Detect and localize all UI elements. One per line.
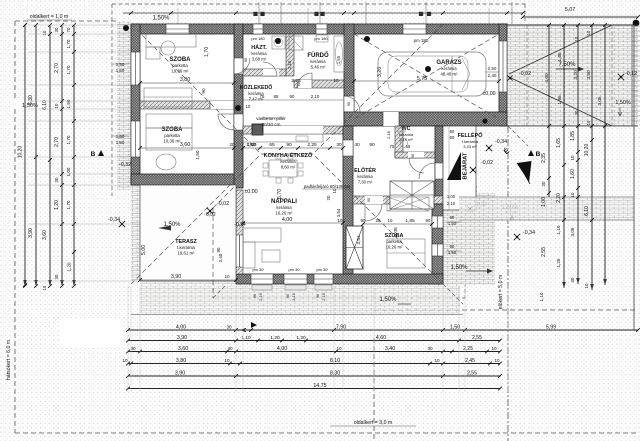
svg-text:5,46 m²: 5,46 m² (311, 65, 326, 70)
svg-text:KONYHA-ÉTKEZŐ: KONYHA-ÉTKEZŐ (264, 151, 313, 159)
svg-text:1,60: 1,60 (570, 169, 576, 179)
svg-text:8,10: 8,10 (330, 358, 340, 364)
svg-text:75: 75 (390, 144, 395, 149)
svg-text:kerámia: kerámia (357, 174, 373, 179)
svg-text:3,90: 3,90 (28, 228, 34, 238)
svg-text:1,50%: 1,50% (152, 16, 170, 22)
svg-text:30: 30 (541, 181, 546, 186)
svg-text:GARÁZS: GARÁZS (436, 59, 461, 66)
svg-text:5,99: 5,99 (546, 325, 556, 331)
svg-text:6,10: 6,10 (42, 100, 48, 110)
svg-text:7,90: 7,90 (336, 325, 346, 331)
svg-text:1,70: 1,70 (204, 47, 210, 57)
svg-text:6,30: 6,30 (28, 95, 34, 105)
svg-text:2,25: 2,25 (291, 78, 301, 84)
svg-text:10: 10 (570, 155, 575, 160)
svg-text:4,00: 4,00 (176, 325, 186, 331)
svg-text:pm 180: pm 180 (414, 38, 429, 43)
svg-text:2,70: 2,70 (54, 63, 60, 73)
svg-text:90: 90 (253, 294, 257, 298)
svg-text:5,00: 5,00 (141, 245, 147, 255)
svg-text:pm 30: pm 30 (316, 267, 328, 272)
svg-text:FELLÉPŐ: FELLÉPŐ (458, 131, 483, 139)
svg-text:1,50: 1,50 (66, 99, 71, 108)
svg-text:6,10: 6,10 (584, 206, 590, 216)
svg-text:90: 90 (426, 218, 431, 223)
svg-text:2,25: 2,25 (463, 346, 473, 352)
svg-text:7,30 m²: 7,30 m² (358, 180, 373, 185)
svg-text:3,51: 3,51 (356, 235, 362, 245)
svg-text:2,10: 2,10 (311, 94, 320, 99)
svg-text:1,25: 1,25 (556, 258, 561, 267)
svg-text:10: 10 (586, 30, 591, 35)
svg-text:19,36 m²: 19,36 m² (172, 69, 190, 74)
svg-text:kerámia: kerámia (441, 66, 457, 71)
svg-text:90: 90 (411, 154, 415, 158)
svg-text:1,50: 1,50 (116, 62, 125, 67)
svg-text:20: 20 (230, 142, 235, 147)
svg-text:1,50%: 1,50% (379, 297, 397, 303)
svg-text:kerámia: kerámia (310, 59, 326, 64)
svg-text:-0,34: -0,34 (523, 230, 535, 236)
svg-text:KÖZLEKEDŐ: KÖZLEKEDŐ (240, 84, 273, 91)
svg-text:4,60: 4,60 (376, 335, 386, 341)
svg-text:-0,34: -0,34 (234, 222, 246, 228)
svg-text:1,00: 1,00 (447, 194, 456, 199)
svg-text:90: 90 (216, 247, 221, 252)
svg-text:3,54: 3,54 (336, 208, 341, 217)
svg-text:65: 65 (269, 142, 275, 148)
svg-text:10: 10 (570, 192, 575, 197)
svg-text:-0,34: -0,34 (495, 139, 507, 145)
svg-text:1,85: 1,85 (557, 52, 563, 62)
svg-text:oldalkert = 1,0 m: oldalkert = 1,0 m (30, 14, 69, 20)
svg-text:-0,32: -0,32 (119, 162, 131, 168)
svg-text:30: 30 (54, 274, 59, 279)
svg-text:2,10: 2,10 (287, 60, 292, 69)
svg-text:3,80: 3,80 (176, 358, 186, 364)
svg-text:60: 60 (450, 215, 455, 220)
svg-text:1,50: 1,50 (116, 134, 125, 139)
svg-text:10: 10 (494, 358, 500, 363)
svg-text:7,50%: 7,50% (558, 62, 576, 68)
svg-text:1,50%: 1,50% (615, 100, 630, 106)
svg-text:1,65: 1,65 (556, 138, 562, 148)
svg-text:30: 30 (130, 346, 136, 351)
svg-text:90: 90 (347, 102, 351, 106)
svg-text:1,50%: 1,50% (450, 265, 468, 271)
svg-text:90: 90 (450, 244, 455, 249)
svg-text:30: 30 (427, 346, 433, 351)
svg-text:oldalkert = 3,0 m: oldalkert = 3,0 m (354, 420, 393, 426)
svg-text:6,70: 6,70 (277, 189, 283, 199)
svg-text:2,40: 2,40 (488, 73, 497, 78)
svg-text:1,50: 1,50 (448, 250, 457, 255)
svg-text:10: 10 (584, 283, 589, 288)
svg-text:2,45: 2,45 (465, 358, 475, 364)
svg-text:14,75: 14,75 (313, 383, 326, 389)
svg-text:1,10: 1,10 (556, 225, 561, 234)
svg-text:parketta: parketta (172, 63, 188, 68)
svg-text:t.kerámia: t.kerámia (177, 245, 195, 250)
svg-text:3,60: 3,60 (180, 142, 190, 148)
svg-text:1,00: 1,00 (246, 142, 256, 148)
svg-text:10: 10 (434, 358, 440, 363)
svg-text:85: 85 (274, 94, 279, 99)
svg-text:-0,34: -0,34 (108, 217, 120, 223)
svg-text:ELŐTÉR: ELŐTÉR (354, 166, 376, 174)
svg-text:1,20: 1,20 (296, 335, 306, 341)
svg-text:2,35: 2,35 (541, 153, 547, 163)
svg-text:±0,00: ±0,00 (244, 189, 257, 195)
svg-text:2,55: 2,55 (467, 371, 477, 377)
svg-text:3,60: 3,60 (178, 346, 188, 352)
svg-text:90: 90 (286, 142, 292, 148)
svg-text:30: 30 (226, 325, 232, 330)
svg-text:2,19: 2,19 (322, 293, 326, 300)
svg-text:1,10: 1,10 (241, 335, 251, 341)
svg-text:pm 30: pm 30 (288, 267, 300, 272)
svg-text:30: 30 (336, 142, 342, 148)
svg-text:kerámia: kerámia (251, 51, 267, 56)
svg-text:3,80: 3,80 (180, 77, 190, 83)
svg-text:10,36 m²: 10,36 m² (164, 139, 182, 144)
svg-text:1,50: 1,50 (116, 68, 125, 73)
svg-text:5,75: 5,75 (417, 76, 427, 82)
svg-text:vasbeton pillér: vasbeton pillér (256, 116, 286, 121)
svg-text:1,95: 1,95 (557, 95, 563, 105)
svg-text:5,07: 5,07 (565, 7, 575, 13)
svg-text:1,70: 1,70 (66, 39, 71, 48)
svg-text:75: 75 (260, 94, 265, 99)
svg-text:BEJÁRAT: BEJÁRAT (462, 152, 469, 179)
svg-text:1,85: 1,85 (570, 131, 576, 141)
svg-text:1,00: 1,00 (541, 197, 547, 207)
svg-text:30: 30 (227, 346, 233, 351)
svg-text:1,50: 1,50 (448, 221, 457, 226)
svg-text:2,50: 2,50 (488, 66, 497, 71)
svg-text:10: 10 (246, 104, 251, 109)
svg-text:70: 70 (66, 27, 71, 32)
svg-text:2,70: 2,70 (54, 137, 60, 147)
svg-text:2,25: 2,25 (307, 142, 317, 148)
svg-text:40: 40 (354, 142, 360, 148)
svg-text:30: 30 (54, 177, 59, 182)
svg-text:-0,02: -0,02 (217, 201, 229, 207)
svg-text:2,55: 2,55 (472, 335, 482, 341)
svg-text:3,33 m²: 3,33 m² (463, 144, 477, 149)
svg-text:60: 60 (450, 135, 455, 140)
svg-text:1,70: 1,70 (66, 65, 71, 74)
svg-text:48,40 m²: 48,40 m² (441, 72, 459, 77)
svg-text:8,60 m²: 8,60 m² (281, 165, 296, 170)
svg-text:3,68 m²: 3,68 m² (252, 57, 267, 62)
svg-text:1,70: 1,70 (66, 200, 71, 209)
svg-text:pm 180: pm 180 (251, 36, 265, 41)
svg-text:10: 10 (54, 103, 59, 108)
svg-text:10: 10 (388, 218, 393, 223)
svg-text:3,40: 3,40 (385, 346, 395, 352)
svg-text:2,19: 2,19 (259, 293, 263, 300)
svg-text:10,20: 10,20 (584, 144, 590, 157)
svg-text:25: 25 (375, 218, 381, 223)
svg-text:2,20: 2,20 (556, 193, 562, 203)
svg-text:90: 90 (367, 198, 371, 202)
svg-text:30: 30 (570, 277, 575, 282)
svg-text:kerámia: kerámia (276, 205, 292, 210)
svg-text:3,90: 3,90 (177, 335, 187, 341)
svg-text:FÜRDŐ: FÜRDŐ (307, 52, 329, 59)
svg-text:hátsókert = 6,0 m: hátsókert = 6,0 m (6, 340, 12, 380)
svg-text:10: 10 (336, 346, 342, 351)
svg-text:-0,02: -0,02 (519, 71, 531, 77)
svg-text:90: 90 (290, 94, 295, 99)
svg-text:10: 10 (224, 358, 230, 363)
svg-text:padlásfeljáró 60/130 cm: padlásfeljáró 60/130 cm (304, 184, 351, 189)
svg-text:1,20: 1,20 (270, 335, 280, 341)
svg-text:90: 90 (286, 294, 290, 298)
svg-text:3,80: 3,80 (586, 70, 592, 80)
svg-text:10: 10 (224, 274, 230, 279)
svg-text:B: B (536, 151, 541, 158)
svg-text:1,50: 1,50 (116, 140, 125, 145)
svg-text:4,00: 4,00 (277, 346, 287, 352)
svg-text:2,18: 2,18 (386, 130, 391, 139)
svg-text:2,19: 2,19 (292, 293, 296, 300)
svg-text:1,20: 1,20 (67, 262, 72, 271)
svg-text:90: 90 (201, 88, 206, 94)
svg-text:2,40: 2,40 (218, 253, 223, 262)
svg-text:3,05: 3,05 (570, 227, 575, 236)
svg-text:1,20: 1,20 (54, 200, 60, 210)
svg-text:pm 180: pm 180 (314, 36, 328, 41)
svg-text:3,90: 3,90 (175, 371, 185, 377)
svg-text:10,26 m²: 10,26 m² (386, 245, 404, 250)
svg-text:90: 90 (369, 142, 375, 148)
svg-text:10: 10 (42, 285, 47, 290)
svg-text:10: 10 (42, 30, 47, 35)
svg-text:-0,02: -0,02 (204, 212, 216, 218)
svg-text:16,20 m²: 16,20 m² (276, 211, 294, 216)
svg-text:3,05: 3,05 (597, 96, 602, 105)
svg-text:1,50: 1,50 (450, 325, 460, 331)
svg-text:8,30: 8,30 (330, 371, 340, 377)
svg-text:1,10: 1,10 (539, 292, 544, 301)
svg-text:10,20: 10,20 (18, 146, 24, 159)
svg-text:parketta: parketta (164, 133, 180, 138)
svg-text:90: 90 (244, 58, 248, 62)
svg-text:2,10: 2,10 (447, 201, 456, 206)
svg-text:10: 10 (586, 120, 591, 125)
svg-text:10: 10 (122, 358, 128, 363)
svg-text:30: 30 (54, 27, 59, 32)
svg-text:90: 90 (316, 294, 320, 298)
svg-text:3,05: 3,05 (393, 227, 399, 237)
svg-text:10: 10 (338, 218, 343, 223)
svg-text:1,00: 1,00 (66, 167, 71, 176)
svg-text:parketta: parketta (386, 239, 402, 244)
svg-text:60: 60 (450, 129, 455, 134)
svg-text:3,90: 3,90 (171, 274, 181, 280)
svg-text:20: 20 (326, 195, 331, 200)
svg-text:elökert = 5,0 m: elökert = 5,0 m (498, 275, 504, 309)
svg-text:1,50: 1,50 (195, 150, 200, 159)
svg-text:10: 10 (491, 346, 497, 351)
svg-text:30/30 cm: 30/30 cm (262, 122, 281, 127)
svg-text:19,61 m²: 19,61 m² (178, 251, 196, 256)
svg-text:10: 10 (334, 78, 339, 83)
svg-text:4,00: 4,00 (282, 217, 292, 223)
svg-text:1,85: 1,85 (405, 218, 415, 224)
svg-text:1,70: 1,70 (66, 135, 71, 144)
svg-text:HÁZT.: HÁZT. (251, 44, 267, 51)
svg-text:-0,02: -0,02 (481, 160, 493, 166)
svg-text:2,55: 2,55 (541, 247, 547, 257)
svg-text:3,60: 3,60 (42, 230, 48, 240)
